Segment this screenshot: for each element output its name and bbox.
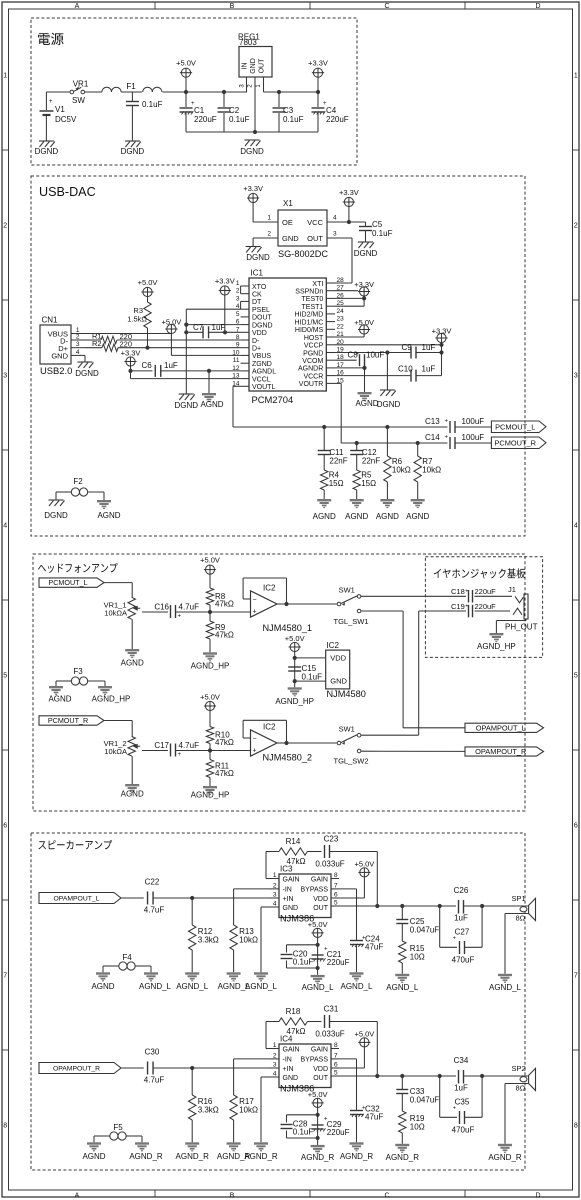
svg-text:NJM4580_1: NJM4580_1 [263, 623, 313, 633]
svg-text:DGND: DGND [175, 401, 199, 410]
svg-text:HID2/MD: HID2/MD [295, 312, 324, 319]
svg-text:F5: F5 [113, 1123, 123, 1132]
svg-text:AGND: AGND [48, 695, 71, 704]
svg-text:VDD: VDD [313, 1066, 328, 1073]
svg-text:VDD: VDD [313, 896, 328, 903]
svg-text:VCCL: VCCL [252, 376, 271, 383]
svg-text:5: 5 [574, 673, 578, 680]
svg-text:AGNDL: AGNDL [252, 369, 276, 376]
svg-text:+: + [356, 352, 360, 358]
svg-text:SP2: SP2 [512, 1064, 526, 1073]
svg-text:8Ω: 8Ω [516, 914, 526, 923]
svg-text:10kΩ: 10kΩ [422, 466, 441, 475]
svg-text:SP1: SP1 [512, 894, 526, 903]
svg-text:C9: C9 [402, 343, 413, 352]
svg-text:DGND: DGND [377, 400, 401, 409]
svg-text:HOST: HOST [304, 335, 324, 342]
svg-text:SW1: SW1 [339, 585, 355, 594]
svg-text:AGND: AGND [345, 512, 368, 521]
svg-text:GAIN: GAIN [283, 1046, 300, 1053]
svg-text:V1: V1 [55, 105, 65, 114]
svg-text:TEST1: TEST1 [302, 304, 324, 311]
svg-text:+5.0V: +5.0V [285, 634, 305, 643]
svg-text:+5.0V: +5.0V [200, 693, 220, 702]
svg-text:C2: C2 [229, 106, 240, 115]
svg-text:10kΩ: 10kΩ [392, 466, 411, 475]
svg-text:+3.3V: +3.3V [121, 349, 141, 358]
svg-text:470uF: 470uF [452, 956, 475, 965]
svg-text:15Ω: 15Ω [361, 479, 376, 488]
svg-text:10Ω: 10Ω [410, 953, 425, 962]
svg-text:1: 1 [267, 215, 271, 222]
svg-text:4: 4 [3, 523, 7, 530]
svg-text:OUT: OUT [307, 234, 323, 243]
svg-text:D-: D- [252, 338, 260, 345]
svg-text:DGND: DGND [354, 249, 378, 258]
svg-text:11: 11 [233, 357, 240, 364]
svg-text:NJM4580_2: NJM4580_2 [263, 753, 313, 763]
svg-text:GAIN: GAIN [283, 876, 300, 883]
svg-text:220: 220 [120, 340, 133, 349]
svg-text:A: A [75, 1192, 80, 1199]
svg-text:AGND_R: AGND_R [129, 1152, 163, 1161]
svg-text:+: + [252, 748, 256, 755]
svg-text:USB2.0: USB2.0 [40, 365, 72, 376]
svg-text:4.7uF: 4.7uF [144, 1076, 165, 1085]
svg-text:5: 5 [236, 311, 240, 318]
svg-text:F1: F1 [126, 82, 136, 91]
svg-text:R18: R18 [286, 1007, 301, 1016]
svg-text:C27: C27 [455, 928, 470, 937]
svg-text:+5.0V: +5.0V [354, 1030, 374, 1039]
svg-text:DGND: DGND [75, 369, 99, 378]
svg-text:AGND_R: AGND_R [488, 1153, 522, 1162]
svg-text:VR1: VR1 [73, 80, 89, 89]
svg-text:TGL_SW1: TGL_SW1 [333, 617, 368, 626]
svg-text:DGND: DGND [246, 253, 270, 262]
svg-text:AGND_R: AGND_R [244, 1152, 278, 1161]
svg-text:AGND_L: AGND_L [176, 982, 209, 991]
svg-text:10kΩA: 10kΩA [104, 609, 127, 618]
svg-text:1: 1 [574, 73, 578, 80]
svg-text:7803: 7803 [239, 38, 257, 47]
svg-text:VBUS: VBUS [252, 353, 271, 360]
svg-text:47uF: 47uF [365, 1113, 383, 1122]
svg-text:+5.0V: +5.0V [308, 1090, 328, 1099]
svg-text:100uF: 100uF [462, 417, 485, 426]
svg-text:2: 2 [574, 223, 578, 230]
svg-text:C35: C35 [455, 1098, 470, 1107]
svg-text:10Ω: 10Ω [410, 1123, 425, 1132]
svg-text:0.1uF: 0.1uF [229, 115, 250, 124]
svg-text:IC2: IC2 [263, 584, 276, 593]
svg-text:AGND: AGND [121, 659, 144, 668]
svg-text:+: + [445, 419, 449, 425]
svg-text:C13: C13 [425, 417, 440, 426]
svg-text:SG-8002DC: SG-8002DC [278, 249, 328, 259]
svg-text:+5.0V: +5.0V [308, 920, 328, 929]
svg-text:D: D [535, 1192, 540, 1199]
svg-text:C14: C14 [425, 433, 440, 442]
svg-text:22nF: 22nF [329, 457, 347, 466]
svg-text:GND: GND [51, 352, 68, 361]
svg-text:VCCP: VCCP [304, 343, 324, 350]
svg-text:2: 2 [76, 334, 80, 341]
svg-text:+: + [465, 604, 468, 610]
svg-text:DGND: DGND [35, 147, 59, 156]
svg-text:CK: CK [252, 292, 262, 299]
svg-text:SW: SW [72, 96, 85, 105]
svg-text:+: + [49, 99, 53, 105]
svg-text:3: 3 [236, 295, 240, 302]
svg-text:AGND: AGND [313, 512, 336, 521]
svg-text:X1: X1 [283, 199, 293, 208]
svg-text:PGND: PGND [303, 350, 323, 357]
svg-text:47uF: 47uF [365, 943, 383, 952]
svg-text:+3.3V: +3.3V [308, 59, 328, 68]
svg-text:−: − [252, 597, 256, 604]
svg-text:3: 3 [574, 373, 578, 380]
svg-text:3.3kΩ: 3.3kΩ [198, 936, 219, 945]
svg-text:AGND_L: AGND_L [489, 983, 522, 992]
svg-text:AGND: AGND [121, 790, 144, 799]
svg-text:2: 2 [3, 223, 7, 230]
svg-text:8: 8 [334, 1042, 338, 1049]
svg-text:AGND_L: AGND_L [340, 982, 373, 991]
svg-text:10kΩ: 10kΩ [239, 936, 258, 945]
svg-text:C19: C19 [451, 602, 465, 611]
svg-text:C: C [384, 1192, 389, 1199]
svg-text:47kΩ: 47kΩ [215, 769, 234, 778]
svg-text:1uF: 1uF [454, 1084, 468, 1093]
svg-text:+3.3V: +3.3V [432, 327, 452, 336]
svg-text:PCM2704: PCM2704 [252, 394, 294, 405]
svg-text:4: 4 [574, 523, 578, 530]
svg-text:C16: C16 [154, 603, 169, 612]
svg-text:AGND: AGND [200, 400, 223, 409]
svg-text:J1: J1 [508, 585, 516, 594]
svg-text:−: − [252, 736, 256, 743]
svg-text:8: 8 [334, 872, 338, 879]
svg-text:3: 3 [333, 231, 337, 238]
svg-text:VCOM: VCOM [302, 358, 323, 365]
svg-text:3: 3 [273, 1062, 277, 1069]
svg-text:+3.3V: +3.3V [243, 184, 263, 193]
svg-text:+5.0V: +5.0V [176, 59, 196, 68]
svg-text:IN: IN [242, 63, 249, 70]
svg-text:-IN: -IN [283, 1057, 292, 1064]
svg-text:220uF: 220uF [194, 115, 217, 124]
svg-text:OPAMPOUT_R: OPAMPOUT_R [475, 747, 526, 756]
svg-text:47kΩ: 47kΩ [287, 1027, 306, 1036]
svg-text:+: + [465, 589, 468, 595]
svg-text:+: + [453, 936, 456, 942]
svg-text:AGND_HP: AGND_HP [92, 695, 131, 704]
svg-text:F3: F3 [73, 667, 83, 676]
svg-text:OE: OE [282, 218, 293, 227]
svg-text:+: + [445, 435, 449, 441]
svg-text:1: 1 [3, 73, 7, 80]
svg-text:C18: C18 [451, 587, 465, 596]
svg-text:PCMOUT_R: PCMOUT_R [48, 716, 88, 725]
svg-text:1uF: 1uF [422, 365, 436, 374]
svg-text:+: + [178, 614, 182, 620]
svg-text:PCMOUT_L: PCMOUT_L [495, 422, 535, 431]
svg-text:7: 7 [334, 1052, 338, 1059]
svg-text:2: 2 [273, 882, 277, 889]
svg-text:BYPASS: BYPASS [301, 887, 329, 894]
svg-text:GND: GND [250, 58, 257, 74]
svg-text:DGND: DGND [252, 322, 273, 329]
svg-text:4: 4 [273, 1071, 277, 1078]
svg-text:47kΩ: 47kΩ [215, 738, 234, 747]
svg-text:F4: F4 [122, 953, 132, 962]
svg-text:AGND_R: AGND_R [176, 1152, 210, 1161]
svg-text:AGND: AGND [355, 399, 378, 408]
svg-text:C30: C30 [145, 1048, 160, 1057]
svg-text:10kΩ: 10kΩ [239, 1106, 258, 1115]
svg-text:22nF: 22nF [362, 457, 380, 466]
svg-text:220uF: 220uF [327, 1128, 350, 1137]
svg-text:1: 1 [236, 280, 240, 287]
svg-text:2: 2 [236, 288, 240, 295]
svg-text:4: 4 [333, 215, 337, 222]
svg-text:AGND: AGND [97, 511, 120, 520]
svg-text:OUT: OUT [313, 905, 329, 912]
svg-text:DGND: DGND [44, 511, 68, 520]
svg-text:7: 7 [3, 973, 7, 980]
svg-text:10uF: 10uF [366, 351, 384, 360]
svg-text:15Ω: 15Ω [329, 479, 344, 488]
svg-text:TEST0: TEST0 [302, 296, 324, 303]
svg-text:C34: C34 [454, 1056, 469, 1065]
svg-text:HID1/MC: HID1/MC [295, 319, 324, 326]
svg-text:C10: C10 [398, 365, 413, 374]
svg-text:6: 6 [3, 823, 7, 830]
svg-text:USB-DAC: USB-DAC [39, 185, 96, 199]
svg-text:1: 1 [273, 872, 277, 879]
svg-text:0.033uF: 0.033uF [315, 860, 344, 869]
svg-text:23: 23 [337, 316, 345, 323]
svg-text:1uF: 1uF [212, 323, 226, 332]
svg-text:AGND_L: AGND_L [302, 983, 335, 992]
svg-text:-IN: -IN [283, 887, 292, 894]
svg-text:GND: GND [330, 677, 347, 686]
svg-text:TGL_SW2: TGL_SW2 [333, 757, 368, 766]
svg-text:22: 22 [337, 323, 345, 330]
svg-text:+: + [178, 752, 182, 758]
svg-text:AGND_L: AGND_L [386, 983, 419, 992]
svg-text:4.7uF: 4.7uF [144, 906, 165, 915]
svg-text:AGND: AGND [406, 512, 429, 521]
svg-text:GAIN: GAIN [311, 1046, 328, 1053]
svg-text:0.033uF: 0.033uF [315, 1030, 344, 1039]
svg-text:+3.3V: +3.3V [339, 188, 359, 197]
svg-text:+IN: +IN [283, 896, 294, 903]
svg-text:C23: C23 [324, 835, 339, 844]
svg-text:OPAMPOUT_L: OPAMPOUT_L [476, 723, 526, 732]
svg-text:0.1uF: 0.1uF [283, 115, 304, 124]
svg-text:C3: C3 [283, 106, 294, 115]
svg-text:+5.0V: +5.0V [161, 318, 181, 327]
svg-text:DOUT: DOUT [252, 315, 273, 322]
svg-text:8: 8 [3, 1123, 7, 1130]
svg-text:3: 3 [3, 373, 7, 380]
svg-text:8Ω: 8Ω [516, 1084, 526, 1093]
svg-text:C7: C7 [193, 323, 204, 332]
svg-text:DC5V: DC5V [55, 115, 77, 124]
svg-text:0.1uF: 0.1uF [372, 229, 393, 238]
svg-text:6: 6 [334, 1062, 338, 1069]
svg-text:AGND_HP: AGND_HP [477, 642, 516, 651]
svg-text:2: 2 [273, 1052, 277, 1059]
svg-text:100uF: 100uF [462, 433, 485, 442]
svg-text:PCMOUT_R: PCMOUT_R [494, 438, 535, 447]
svg-text:C4: C4 [326, 106, 337, 115]
svg-text:6: 6 [574, 823, 578, 830]
svg-text:4.7uF: 4.7uF [179, 741, 200, 750]
svg-text:+5.0V: +5.0V [200, 556, 220, 565]
svg-text:SW1: SW1 [339, 724, 355, 733]
svg-text:GND: GND [283, 1075, 299, 1082]
svg-text:1uF: 1uF [164, 361, 178, 370]
svg-text:6: 6 [334, 892, 338, 899]
svg-text:C6: C6 [142, 361, 153, 370]
svg-text:AGNDR: AGNDR [298, 366, 323, 373]
svg-text:SSPNDn: SSPNDn [295, 289, 323, 296]
svg-text:+: + [453, 1106, 456, 1112]
svg-text:3: 3 [76, 341, 80, 348]
svg-text:A: A [75, 3, 80, 10]
svg-text:PCMOUT_L: PCMOUT_L [48, 578, 87, 587]
svg-text:C5: C5 [372, 220, 383, 229]
svg-text:+5.0V: +5.0V [354, 860, 374, 869]
svg-text:0.047uF: 0.047uF [410, 926, 439, 935]
svg-text:C1: C1 [194, 106, 205, 115]
svg-text:4: 4 [273, 901, 277, 908]
svg-text:IC1: IC1 [251, 269, 264, 278]
svg-text:47kΩ: 47kΩ [287, 857, 306, 866]
svg-text:C26: C26 [454, 886, 469, 895]
svg-text:DGND: DGND [240, 147, 264, 156]
svg-text:OUT: OUT [259, 58, 266, 74]
svg-text:B: B [230, 1192, 235, 1199]
svg-text:B: B [230, 3, 235, 10]
svg-text:+: + [252, 609, 256, 616]
svg-text:AGND_HP: AGND_HP [191, 662, 230, 671]
svg-text:3: 3 [273, 892, 277, 899]
svg-text:ZGND: ZGND [252, 361, 272, 368]
svg-text:IC2: IC2 [327, 641, 340, 650]
svg-text:AGND_R: AGND_R [301, 1153, 335, 1162]
svg-text:0.047uF: 0.047uF [410, 1096, 439, 1105]
svg-text:+IN: +IN [283, 1066, 294, 1073]
svg-text:DT: DT [252, 299, 262, 306]
svg-text:220uF: 220uF [327, 958, 350, 967]
svg-text:7: 7 [334, 882, 338, 889]
svg-text:AGND_HP: AGND_HP [275, 697, 314, 706]
svg-text:AGND_L: AGND_L [139, 982, 172, 991]
svg-text:CN1: CN1 [42, 316, 59, 325]
svg-text:C: C [384, 3, 389, 10]
svg-text:+3.3V: +3.3V [354, 280, 374, 289]
svg-text:AGND: AGND [82, 1152, 105, 1161]
svg-text:XTI: XTI [312, 281, 323, 288]
svg-text:1uF: 1uF [422, 343, 436, 352]
svg-text:C17: C17 [154, 741, 169, 750]
svg-text:VOUTL: VOUTL [252, 384, 275, 391]
svg-text:VDD: VDD [252, 330, 267, 337]
svg-text:24: 24 [337, 308, 345, 315]
svg-text:C31: C31 [324, 1005, 339, 1014]
svg-text:5: 5 [334, 900, 338, 907]
svg-text:220uF: 220uF [326, 115, 349, 124]
svg-text:1: 1 [273, 1042, 277, 1049]
svg-text:R14: R14 [286, 837, 301, 846]
svg-text:VDD: VDD [330, 654, 346, 663]
svg-text:DGND: DGND [121, 147, 145, 156]
svg-text:OPAMPOUT_L: OPAMPOUT_L [54, 896, 100, 903]
svg-text:AGND: AGND [376, 512, 399, 521]
svg-text:BYPASS: BYPASS [301, 1057, 329, 1064]
svg-text:AGND_R: AGND_R [340, 1152, 374, 1161]
svg-text:IC2: IC2 [263, 723, 276, 732]
svg-text:47kΩ: 47kΩ [215, 631, 234, 640]
svg-text:OUT: OUT [313, 1075, 329, 1082]
svg-text:0.1uF: 0.1uF [142, 100, 163, 109]
svg-text:AGND_R: AGND_R [386, 1153, 420, 1162]
svg-text:F2: F2 [73, 477, 83, 486]
svg-text:AGND: AGND [91, 982, 114, 991]
svg-text:VCCR: VCCR [303, 373, 323, 380]
svg-text:AGND_L: AGND_L [245, 982, 278, 991]
svg-text:GND: GND [283, 905, 299, 912]
svg-text:NJM4580: NJM4580 [327, 689, 366, 699]
svg-text:+3.3V: +3.3V [215, 276, 235, 285]
svg-text:XTO: XTO [252, 284, 267, 291]
svg-text:GAIN: GAIN [311, 876, 328, 883]
svg-text:D+: D+ [252, 346, 261, 353]
svg-text:VOUTR: VOUTR [299, 381, 324, 388]
svg-text:HID0/MS: HID0/MS [295, 327, 324, 334]
svg-text:8: 8 [574, 1123, 578, 1130]
svg-text:220uF: 220uF [475, 602, 497, 611]
svg-text:2: 2 [267, 231, 271, 238]
svg-text:1.5kΩ: 1.5kΩ [127, 315, 147, 324]
svg-text:1uF: 1uF [454, 914, 468, 923]
svg-text:47kΩ: 47kΩ [215, 600, 234, 609]
svg-text:+5.0V: +5.0V [138, 278, 158, 287]
svg-text:OPAMPOUT_R: OPAMPOUT_R [53, 1066, 100, 1073]
svg-text:4: 4 [76, 349, 80, 356]
svg-text:220uF: 220uF [475, 587, 497, 596]
svg-text:PSEL: PSEL [252, 307, 270, 314]
svg-text:5: 5 [3, 673, 7, 680]
svg-text:R2: R2 [92, 339, 102, 348]
svg-text:D: D [535, 3, 540, 10]
svg-text:0.1uF: 0.1uF [302, 673, 323, 682]
svg-text:AGND_HP: AGND_HP [191, 791, 230, 800]
svg-text:4.7uF: 4.7uF [179, 603, 200, 612]
svg-text:C22: C22 [145, 878, 160, 887]
svg-text:PH_OUT: PH_OUT [505, 623, 538, 632]
svg-text:0.1uF: 0.1uF [293, 1128, 314, 1137]
svg-text:28: 28 [337, 277, 345, 284]
svg-text:0.1uF: 0.1uF [293, 958, 314, 967]
svg-text:VCC: VCC [307, 218, 323, 227]
svg-text:5: 5 [334, 1070, 338, 1077]
svg-text:7: 7 [574, 973, 578, 980]
